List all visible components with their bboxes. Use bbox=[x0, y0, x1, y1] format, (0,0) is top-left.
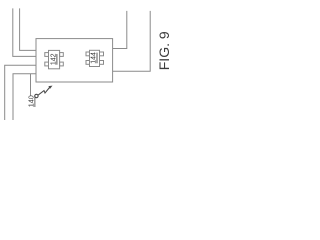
svg-text:140: 140 bbox=[26, 95, 35, 107]
svg-text:144: 144 bbox=[91, 52, 98, 64]
svg-text:FIG. 9: FIG. 9 bbox=[156, 31, 172, 70]
svg-text:142: 142 bbox=[50, 53, 57, 65]
